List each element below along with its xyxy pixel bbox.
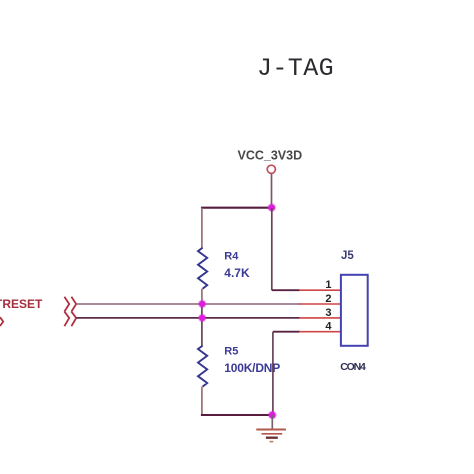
junction A	[267, 203, 276, 212]
wire bottom horizontal	[201, 414, 273, 416]
ground symbol bar 1	[256, 429, 286, 431]
svg-text:4.7K: 4.7K	[224, 266, 250, 280]
power symbol VCC_3V3D circle	[267, 165, 275, 173]
svg-text:3: 3	[325, 307, 331, 319]
wire 2 TRESET to connector pin2	[76, 303, 300, 305]
pin 3 red stub	[299, 317, 341, 319]
wire junction D to ground	[271, 415, 273, 429]
connector J5 body	[341, 275, 368, 346]
off-page connector chevrons lower	[64, 312, 69, 327]
svg-text:CON4: CON4	[340, 361, 366, 373]
junction D	[268, 411, 277, 420]
wire junction A down to pin1 corner	[271, 208, 273, 291]
pin 4 red stub	[299, 331, 341, 333]
svg-text:R4: R4	[224, 251, 239, 263]
pin 2 red stub	[299, 303, 341, 305]
wire top horizontal	[201, 207, 273, 209]
ground symbol bar 4	[270, 441, 274, 443]
svg-text:J-TAG: J-TAG	[257, 54, 334, 83]
svg-text:2: 2	[325, 293, 331, 305]
ground symbol bar 2	[262, 433, 283, 435]
ground symbol bar 3	[266, 437, 278, 439]
off-page connector chevrons upper	[64, 297, 69, 312]
wire pin4 corner down to junction D	[272, 332, 274, 415]
resistor R5	[198, 346, 207, 387]
wire R4 bottom to junction B	[201, 289, 203, 304]
pin 1 red stub	[299, 289, 341, 291]
svg-text:100K/DNP: 100K/DNP	[224, 361, 280, 375]
svg-text:VCC_3V3D: VCC_3V3D	[238, 148, 303, 162]
junction C	[198, 314, 207, 323]
svg-text:4: 4	[325, 321, 332, 333]
wire vertical between junctions B and C down to R5	[201, 304, 203, 346]
junction B	[198, 300, 207, 309]
svg-text:J5: J5	[341, 250, 354, 262]
svg-text:R5: R5	[224, 346, 238, 358]
svg-text:TRESET: TRESET	[0, 297, 43, 311]
wire VCC circle to junction A	[271, 174, 273, 208]
wire pin4 horizontal	[273, 331, 300, 333]
wire pin1 horizontal	[272, 289, 300, 291]
svg-text:1: 1	[325, 279, 331, 291]
wire 3 TRESET to connector pin3	[76, 317, 300, 319]
clipped chevron mark at left edge	[0, 317, 3, 326]
resistor R4	[198, 248, 207, 289]
wire R5 bottom to bottom rail	[201, 387, 203, 415]
wire top to R4	[201, 208, 203, 249]
